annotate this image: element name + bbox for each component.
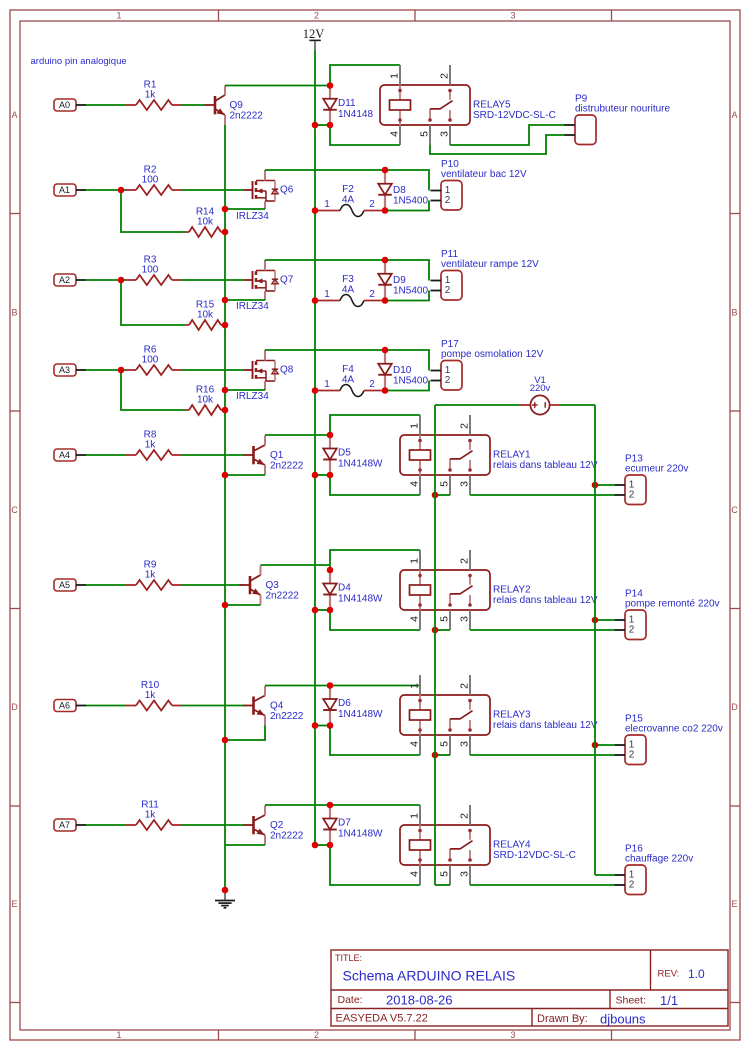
svg-text:2n2222: 2n2222: [230, 111, 264, 122]
svg-text:D10: D10: [393, 365, 412, 376]
svg-text:A2: A2: [59, 275, 70, 285]
svg-text:arduino pin analogique: arduino pin analogique: [31, 56, 127, 67]
svg-text:Q8: Q8: [280, 365, 294, 376]
svg-text:2: 2: [629, 490, 635, 501]
svg-text:Schema ARDUINO RELAIS: Schema ARDUINO RELAIS: [343, 968, 516, 984]
svg-text:A3: A3: [59, 365, 70, 375]
svg-text:E: E: [731, 899, 737, 909]
svg-text:A: A: [731, 110, 737, 120]
svg-text:B: B: [11, 308, 17, 318]
svg-text:2: 2: [459, 683, 471, 689]
svg-text:3: 3: [459, 741, 471, 747]
svg-text:1: 1: [324, 289, 330, 300]
svg-text:4A: 4A: [342, 375, 355, 386]
svg-text:2n2222: 2n2222: [266, 591, 300, 602]
svg-text:2: 2: [629, 880, 635, 891]
svg-text:2n2222: 2n2222: [270, 831, 304, 842]
svg-text:Q4: Q4: [270, 701, 284, 712]
svg-text:2: 2: [369, 289, 375, 300]
svg-text:1: 1: [409, 558, 421, 564]
svg-text:1N4148W: 1N4148W: [338, 709, 383, 720]
svg-text:1N5400: 1N5400: [393, 196, 428, 207]
svg-text:1N4148: 1N4148: [338, 109, 373, 120]
svg-text:ventilateur rampe 12V: ventilateur rampe 12V: [441, 259, 539, 270]
svg-text:Q2: Q2: [270, 820, 284, 831]
svg-text:Q3: Q3: [266, 580, 280, 591]
svg-text:A4: A4: [59, 450, 70, 460]
svg-text:chauffage 220v: chauffage 220v: [625, 854, 693, 865]
svg-text:2: 2: [369, 199, 375, 210]
svg-text:RELAY1: RELAY1: [493, 450, 531, 461]
svg-text:pompe remonté 220v: pompe remonté 220v: [625, 599, 720, 610]
svg-text:relais dans tableau 12V: relais dans tableau 12V: [493, 595, 598, 606]
svg-text:3: 3: [459, 871, 471, 877]
svg-text:4A: 4A: [342, 285, 355, 296]
svg-text:djbouns: djbouns: [600, 1012, 646, 1027]
svg-text:F4: F4: [342, 364, 354, 375]
svg-text:A0: A0: [59, 100, 70, 110]
svg-text:100: 100: [142, 265, 159, 276]
svg-text:3: 3: [439, 131, 451, 137]
svg-text:RELAY2: RELAY2: [493, 585, 531, 596]
svg-text:10k: 10k: [197, 310, 214, 321]
svg-text:2: 2: [445, 375, 451, 386]
svg-text:IRLZ34: IRLZ34: [236, 301, 269, 312]
svg-text:REV:: REV:: [658, 969, 680, 980]
svg-text:1N5400: 1N5400: [393, 286, 428, 297]
svg-text:D6: D6: [338, 698, 351, 709]
svg-text:Drawn By:: Drawn By:: [537, 1013, 588, 1025]
svg-text:2: 2: [629, 625, 635, 636]
svg-text:3: 3: [510, 11, 515, 21]
svg-text:D: D: [731, 702, 738, 712]
svg-text:RELAY4: RELAY4: [493, 840, 531, 851]
svg-text:2n2222: 2n2222: [270, 461, 304, 472]
svg-text:A7: A7: [59, 820, 70, 830]
svg-text:E: E: [11, 899, 17, 909]
svg-text:Q7: Q7: [280, 275, 294, 286]
svg-text:1k: 1k: [145, 690, 157, 701]
svg-text:2n2222: 2n2222: [270, 711, 304, 722]
svg-text:Q9: Q9: [230, 100, 244, 111]
svg-text:D8: D8: [393, 185, 406, 196]
svg-text:1: 1: [409, 423, 421, 429]
svg-text:SRD-12VDC-SL-C: SRD-12VDC-SL-C: [493, 850, 576, 861]
svg-text:5: 5: [439, 871, 451, 877]
svg-text:2: 2: [314, 11, 319, 21]
svg-text:Sheet:: Sheet:: [616, 995, 646, 1007]
svg-text:1N5400: 1N5400: [393, 376, 428, 387]
svg-text:1: 1: [389, 73, 401, 79]
svg-text:2: 2: [369, 379, 375, 390]
svg-text:1k: 1k: [145, 90, 157, 101]
svg-text:4: 4: [409, 481, 421, 487]
svg-text:A: A: [11, 110, 17, 120]
svg-text:10k: 10k: [197, 395, 214, 406]
svg-text:4: 4: [409, 871, 421, 877]
svg-text:1: 1: [409, 683, 421, 689]
svg-text:RELAY5: RELAY5: [473, 100, 511, 111]
svg-text:5: 5: [439, 481, 451, 487]
svg-text:RELAY3: RELAY3: [493, 710, 531, 721]
svg-text:2: 2: [459, 813, 471, 819]
svg-text:relais dans tableau 12V: relais dans tableau 12V: [493, 720, 598, 731]
svg-text:1.0: 1.0: [688, 967, 705, 981]
svg-text:1: 1: [116, 1030, 121, 1040]
svg-text:10k: 10k: [197, 217, 214, 228]
svg-text:IRLZ34: IRLZ34: [236, 391, 269, 402]
svg-text:2: 2: [459, 423, 471, 429]
svg-text:4: 4: [389, 131, 401, 137]
svg-text:3: 3: [510, 1030, 515, 1040]
svg-text:1N4148W: 1N4148W: [338, 459, 383, 470]
svg-text:ventilateur bac 12V: ventilateur bac 12V: [441, 169, 527, 180]
svg-text:D7: D7: [338, 818, 351, 829]
svg-text:pompe osmolation 12V: pompe osmolation 12V: [441, 349, 544, 360]
svg-text:12V: 12V: [303, 27, 325, 41]
svg-text:4: 4: [409, 616, 421, 622]
svg-text:ecumeur 220v: ecumeur 220v: [625, 464, 688, 475]
svg-text:3: 3: [459, 616, 471, 622]
svg-text:1/1: 1/1: [660, 993, 678, 1008]
svg-text:A1: A1: [59, 185, 70, 195]
svg-text:distrubuteur nouriture: distrubuteur nouriture: [575, 104, 670, 115]
svg-text:100: 100: [142, 355, 159, 366]
svg-text:5: 5: [439, 616, 451, 622]
svg-text:TITLE:: TITLE:: [335, 953, 362, 963]
svg-text:2: 2: [314, 1030, 319, 1040]
svg-text:IRLZ34: IRLZ34: [236, 211, 269, 222]
svg-text:1: 1: [324, 379, 330, 390]
svg-text:2: 2: [445, 195, 451, 206]
svg-text:D: D: [11, 702, 18, 712]
svg-text:2: 2: [445, 285, 451, 296]
svg-text:3: 3: [459, 481, 471, 487]
svg-text:4A: 4A: [342, 195, 355, 206]
svg-text:Q6: Q6: [280, 185, 294, 196]
svg-text:C: C: [731, 505, 738, 515]
svg-text:relais dans tableau 12V: relais dans tableau 12V: [493, 460, 598, 471]
svg-text:1: 1: [116, 11, 121, 21]
svg-text:SRD-12VDC-SL-C: SRD-12VDC-SL-C: [473, 110, 556, 121]
svg-text:5: 5: [419, 131, 431, 137]
svg-text:A6: A6: [59, 701, 70, 711]
svg-text:220v: 220v: [530, 383, 551, 394]
svg-text:C: C: [11, 505, 18, 515]
svg-text:1: 1: [324, 199, 330, 210]
svg-text:2018-08-26: 2018-08-26: [386, 993, 453, 1008]
svg-text:D4: D4: [338, 583, 351, 594]
svg-text:A5: A5: [59, 580, 70, 590]
svg-text:1k: 1k: [145, 810, 157, 821]
svg-text:100: 100: [142, 175, 159, 186]
svg-text:4: 4: [409, 741, 421, 747]
svg-text:F3: F3: [342, 274, 354, 285]
svg-text:1k: 1k: [145, 440, 157, 451]
svg-text:1k: 1k: [145, 570, 157, 581]
svg-text:2: 2: [629, 750, 635, 761]
svg-text:1N4148W: 1N4148W: [338, 829, 383, 840]
svg-text:D9: D9: [393, 275, 406, 286]
svg-text:F2: F2: [342, 184, 354, 195]
svg-text:Q1: Q1: [270, 450, 284, 461]
svg-text:1N4148W: 1N4148W: [338, 594, 383, 605]
svg-text:2: 2: [459, 558, 471, 564]
svg-text:D5: D5: [338, 448, 351, 459]
svg-text:5: 5: [439, 741, 451, 747]
svg-text:elecrovanne co2 220v: elecrovanne co2 220v: [625, 724, 723, 735]
svg-text:Date:: Date:: [338, 994, 363, 1006]
svg-text:1: 1: [409, 813, 421, 819]
svg-text:B: B: [731, 308, 737, 318]
svg-text:2: 2: [439, 73, 451, 79]
svg-text:EASYEDA V5.7.22: EASYEDA V5.7.22: [336, 1013, 428, 1025]
svg-text:D11: D11: [338, 98, 356, 109]
